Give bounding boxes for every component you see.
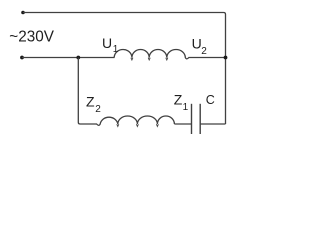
- svg-text:2: 2: [95, 104, 101, 115]
- wire middle horizontal left segment: [22, 57, 115, 59]
- svg-text:~230V: ~230V: [9, 28, 54, 45]
- terminal dot middle-left: [20, 56, 24, 60]
- wire left vertical branch + bottom-left corner: [78, 58, 97, 125]
- svg-text:U: U: [102, 35, 112, 51]
- svg-text:Z: Z: [174, 91, 183, 107]
- wire loop crossings U coil: [131, 58, 168, 60]
- node junction on middle wire: [76, 56, 80, 60]
- wire bottom between coil and capacitor: [174, 123, 191, 125]
- svg-text:2: 2: [201, 46, 207, 57]
- wire bottom right segment: [200, 123, 225, 125]
- wire middle horizontal right segment: [189, 57, 226, 59]
- svg-text:1: 1: [113, 44, 119, 55]
- wire loop crossings Z coil: [117, 124, 159, 126]
- wire top horizontal + right vertical: [23, 13, 226, 125]
- svg-text:1: 1: [183, 102, 189, 113]
- node junction middle-right: [224, 56, 228, 60]
- svg-text:C: C: [206, 93, 215, 107]
- svg-text:Z: Z: [86, 94, 95, 110]
- terminal dot top-left: [21, 11, 25, 15]
- capacitor C left plate: [191, 104, 193, 134]
- inductor U1-U2: [114, 50, 189, 59]
- inductor Z2-Z1: [97, 116, 175, 125]
- capacitor C right plate: [199, 104, 201, 134]
